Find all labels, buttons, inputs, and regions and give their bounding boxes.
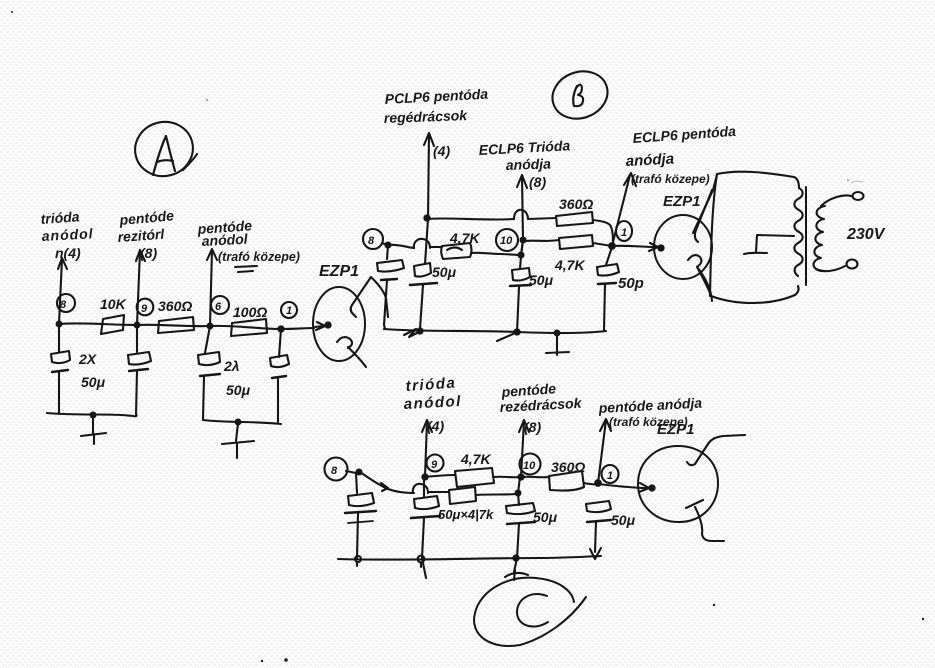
svg-text:anódol: anódol <box>41 225 94 244</box>
svg-text:50μ: 50μ <box>533 509 558 525</box>
svg-text:50μ: 50μ <box>81 374 106 390</box>
svg-text:1: 1 <box>621 227 627 239</box>
svg-text:4,7K: 4,7K <box>460 451 491 467</box>
svg-text:50μ: 50μ <box>432 264 457 280</box>
svg-text:360Ω: 360Ω <box>559 196 593 212</box>
svg-text:50μ: 50μ <box>529 272 554 288</box>
svg-text:(8): (8) <box>529 174 546 190</box>
svg-text:230V: 230V <box>846 226 886 243</box>
svg-text:360Ω: 360Ω <box>158 298 192 314</box>
svg-text:EZP1: EZP1 <box>657 421 695 438</box>
svg-text:1: 1 <box>286 305 292 317</box>
svg-text:8: 8 <box>368 235 375 247</box>
svg-text:EZP1: EZP1 <box>663 193 701 210</box>
svg-text:anódja: anódja <box>506 155 552 173</box>
svg-text:10K: 10K <box>100 296 127 312</box>
svg-text:anódja: anódja <box>625 150 674 170</box>
svg-text:EZP1: EZP1 <box>319 263 359 280</box>
svg-text:360Ω: 360Ω <box>551 459 585 475</box>
svg-text:9: 9 <box>141 303 148 315</box>
svg-text:2λ: 2λ <box>223 358 240 374</box>
svg-text:50p: 50p <box>618 275 644 292</box>
svg-text:n(4): n(4) <box>55 245 81 261</box>
svg-text:(4): (4) <box>427 418 444 434</box>
svg-text:rezitórl: rezitórl <box>117 226 166 245</box>
svg-text:trióda: trióda <box>405 374 457 394</box>
svg-text:50μ: 50μ <box>226 382 251 398</box>
svg-text:2X: 2X <box>78 351 98 367</box>
svg-text:anódol: anódol <box>201 231 249 249</box>
svg-text:50μ×4|7k: 50μ×4|7k <box>438 507 494 522</box>
svg-text:8: 8 <box>60 299 67 311</box>
svg-text:(8): (8) <box>524 419 541 435</box>
svg-text:50μ: 50μ <box>611 512 636 528</box>
svg-text:4,7K: 4,7K <box>554 257 585 273</box>
svg-text:100Ω: 100Ω <box>233 304 267 320</box>
svg-text:4,7K: 4,7K <box>449 230 480 246</box>
svg-text:10: 10 <box>523 460 536 472</box>
svg-text:6: 6 <box>215 301 222 313</box>
svg-text:(trafó közepe): (trafó közepe) <box>218 250 300 264</box>
svg-text:regédrácsok: regédrácsok <box>384 107 469 126</box>
svg-text:(8): (8) <box>140 245 157 261</box>
svg-text:9: 9 <box>431 459 438 471</box>
svg-text:8: 8 <box>331 465 338 477</box>
svg-text:trióda: trióda <box>40 208 80 227</box>
svg-text:(trafó közepe): (trafó közepe) <box>631 172 710 186</box>
svg-text:anódol: anódol <box>403 393 462 413</box>
svg-text:(4): (4) <box>433 143 450 159</box>
svg-text:1: 1 <box>607 470 613 482</box>
svg-text:10: 10 <box>500 235 513 247</box>
